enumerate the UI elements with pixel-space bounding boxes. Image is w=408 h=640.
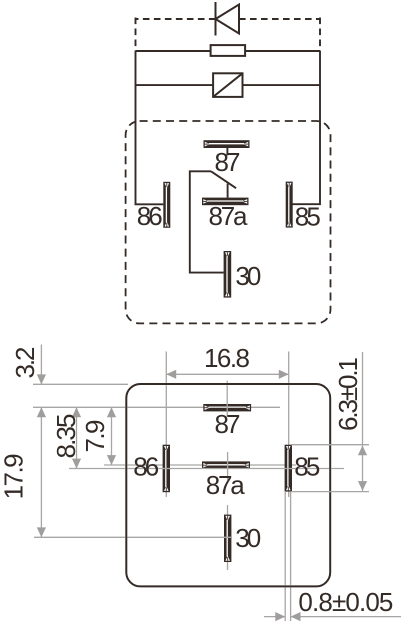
wire resistor rail bbox=[136, 50, 321, 52]
svg-text:86: 86 bbox=[137, 201, 163, 231]
extension line terminal 30 row bbox=[34, 536, 232, 538]
switch blade wire from pivot bbox=[190, 171, 224, 272]
terminal 87a stem wire bbox=[227, 184, 229, 198]
centerline terminal 87 vertical bbox=[226, 381, 228, 417]
wire coil rail bbox=[136, 84, 321, 86]
dashed enclosure top edge right segment bbox=[239, 18, 320, 20]
svg-text:86: 86 bbox=[133, 452, 159, 482]
extension line terminal 85 left face bbox=[284, 492, 286, 621]
svg-text:0.8±0.05: 0.8±0.05 bbox=[298, 587, 393, 617]
svg-text:30: 30 bbox=[235, 261, 261, 291]
dashed enclosure top edge left segment bbox=[136, 18, 216, 20]
extension line terminal 85 bottom bbox=[291, 491, 369, 493]
dimension 0.8±0.05 arrows bbox=[275, 612, 285, 621]
wire left rail to terminal 86 bbox=[136, 51, 164, 204]
terminal 86 (dimension drawing) bbox=[163, 445, 170, 493]
svg-text:30: 30 bbox=[235, 523, 261, 553]
terminal 87 (dimension drawing) bbox=[203, 404, 251, 411]
centerline terminal 30 vertical bbox=[227, 505, 229, 570]
svg-text:87a: 87a bbox=[206, 470, 246, 500]
dimension 7.9 arrows bbox=[107, 407, 116, 417]
wire right rail to terminal 85 bbox=[293, 51, 321, 204]
dashed enclosure left side bbox=[135, 18, 137, 52]
terminal 87a (dimension drawing) bbox=[202, 461, 250, 469]
terminal 87a (schematic) bbox=[202, 198, 249, 206]
svg-text:7.9: 7.9 bbox=[80, 420, 110, 453]
dimension 3.2 line bbox=[40, 345, 42, 385]
terminal 30 (dimension drawing) bbox=[224, 515, 231, 562]
centerline terminal 86 vertical bbox=[165, 352, 167, 498]
switch blade contact arm bbox=[211, 171, 236, 188]
terminal 30 (schematic) bbox=[224, 251, 232, 298]
terminal 87 stem wire bbox=[226, 148, 228, 155]
extension line terminals 86 85 row bbox=[69, 468, 344, 470]
dimension 8.35 line bbox=[76, 407, 78, 468]
terminal 86 (schematic) bbox=[163, 182, 170, 228]
svg-text:87: 87 bbox=[215, 147, 241, 177]
terminal 87 (schematic) bbox=[204, 140, 250, 148]
diode D1 bbox=[216, 2, 240, 36]
dimension 17.9 line bbox=[40, 407, 42, 537]
dimension 3.2 arrow bbox=[37, 374, 46, 384]
extension line terminal 87a row bbox=[104, 464, 296, 466]
dashed enclosure right side bbox=[319, 18, 321, 52]
resistor R1 bbox=[211, 45, 246, 56]
dimension 8.35 arrows bbox=[72, 407, 81, 417]
relay body outline (dimension drawing) bbox=[126, 384, 330, 586]
centerline terminal 85 vertical bbox=[288, 352, 290, 498]
relay coil K1 bbox=[213, 73, 242, 97]
terminal 85 (schematic) bbox=[286, 182, 293, 228]
terminal 85 (dimension drawing) bbox=[285, 445, 292, 492]
svg-text:8.35: 8.35 bbox=[51, 414, 81, 459]
svg-text:87a: 87a bbox=[209, 201, 249, 231]
svg-text:85: 85 bbox=[294, 452, 320, 482]
dimension 17.9 arrows bbox=[37, 407, 46, 417]
svg-text:6.3±0.1: 6.3±0.1 bbox=[333, 357, 363, 431]
svg-text:85: 85 bbox=[295, 202, 321, 232]
dimension 7.9 line bbox=[111, 407, 113, 465]
dimension 16.8 arrows bbox=[166, 370, 176, 379]
dimension 16.8 line bbox=[166, 373, 288, 375]
svg-text:17.9: 17.9 bbox=[0, 453, 28, 499]
dimension 6.3±0.1 line bbox=[362, 352, 364, 492]
relay case dashed outline bbox=[126, 121, 331, 323]
extension line terminal 87 row bbox=[33, 406, 280, 408]
centerline terminal 87a vertical bbox=[227, 452, 229, 480]
svg-text:87: 87 bbox=[215, 409, 241, 439]
svg-text:3.2: 3.2 bbox=[10, 347, 40, 379]
extension line box top bbox=[33, 383, 128, 385]
extension line terminal 85 top bbox=[291, 444, 369, 446]
dimension 0.8±0.05 lines bbox=[264, 616, 285, 618]
extension line terminal 85 right face bbox=[290, 492, 292, 621]
svg-text:16.8: 16.8 bbox=[204, 343, 250, 373]
dimension 6.3±0.1 arrows bbox=[358, 446, 367, 456]
